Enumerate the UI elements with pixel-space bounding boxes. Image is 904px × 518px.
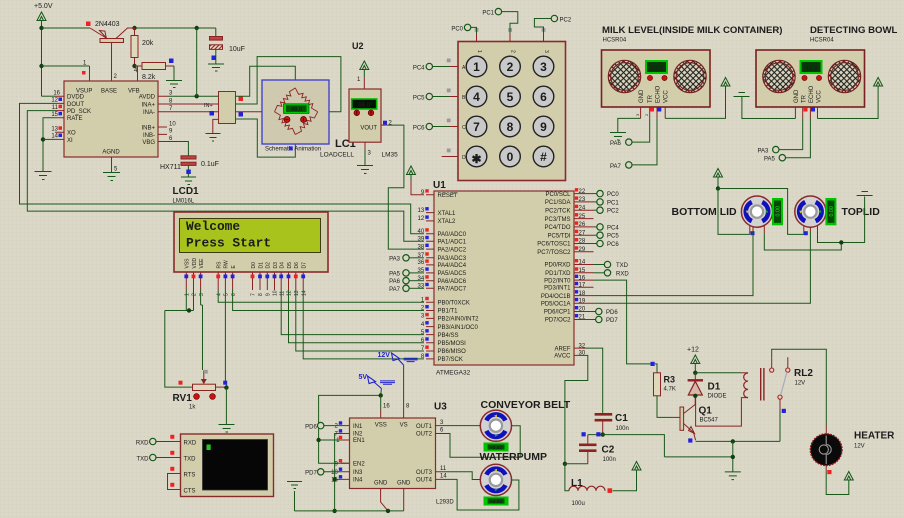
svg-text:16: 16 — [579, 275, 586, 281]
svg-text:PC1: PC1 — [607, 200, 619, 206]
svg-text:88.0: 88.0 — [358, 102, 371, 109]
U3 top pin stubs — [381, 409, 404, 418]
svg-text:5V: 5V — [359, 374, 368, 381]
svg-text:ECHO: ECHO — [656, 85, 662, 103]
svg-text:0.00: 0.00 — [776, 206, 782, 217]
svg-text:PA3/ADC3: PA3/ADC3 — [438, 256, 467, 262]
node C2 bottom — [563, 462, 567, 466]
blue squares lid pins — [751, 231, 808, 235]
LCD pin numbers — [185, 290, 308, 296]
wire bottomlid signal PD4 — [594, 232, 754, 296]
svg-text:9: 9 — [266, 293, 272, 296]
svg-text:0.00: 0.00 — [829, 206, 835, 217]
svg-text:0: 0 — [507, 150, 514, 164]
svg-text:CONVEYOR BELT: CONVEYOR BELT — [481, 399, 571, 411]
keypad button 1 — [466, 56, 487, 77]
power arrow +5V — [37, 12, 46, 28]
U3 top pin numbers — [383, 404, 410, 410]
svg-text:7: 7 — [251, 293, 257, 296]
keypad button 9 — [533, 116, 554, 137]
svg-text:PA7: PA7 — [389, 287, 401, 293]
U3 right pin stubs — [436, 426, 445, 480]
loadcell LC1 bridge — [262, 80, 329, 153]
wire VSS down — [380, 395, 382, 409]
svg-text:RW: RW — [224, 260, 230, 269]
wire sensor2 VCC to power — [818, 86, 879, 119]
wire RS to PB0 — [218, 290, 424, 302]
ground below 0.1uF — [181, 177, 196, 185]
terminal PC5 keypad — [413, 93, 450, 101]
svg-text:13: 13 — [51, 127, 58, 133]
terminal RXD — [594, 270, 630, 278]
svg-text:100n: 100n — [616, 426, 629, 432]
terminal PA5 U1 — [389, 270, 424, 278]
svg-text:PD1/TXD: PD1/TXD — [545, 271, 571, 277]
svg-text:2N4403: 2N4403 — [95, 21, 120, 28]
svg-text:IN2: IN2 — [353, 432, 363, 438]
svg-text:INA+: INA+ — [141, 102, 155, 108]
terminal PA7 U1 — [389, 285, 424, 293]
svg-text:PB7/SCK: PB7/SCK — [438, 357, 463, 363]
node VDD — [187, 308, 191, 312]
svg-text:D6: D6 — [294, 262, 300, 269]
svg-text:DOUT: DOUT — [67, 102, 84, 108]
keypad button 8 — [500, 116, 521, 137]
keypad button 3 — [533, 56, 554, 77]
svg-text:PA3: PA3 — [758, 149, 770, 155]
svg-text:PC2: PC2 — [560, 18, 572, 24]
node +5V top — [39, 26, 43, 30]
svg-text:PA5: PA5 — [764, 157, 776, 163]
svg-text:PA5: PA5 — [389, 271, 401, 277]
terminal PC0 — [451, 24, 476, 33]
svg-text:17: 17 — [579, 283, 586, 289]
ground below 8.2k — [166, 81, 182, 88]
motor M4 toplid — [795, 196, 826, 227]
terminal PC6 U1 — [594, 240, 620, 248]
motor M3 bottom lid — [741, 196, 772, 227]
svg-text:VS: VS — [400, 423, 408, 429]
wire IN2 IN4 to gnd rail — [335, 434, 341, 511]
svg-text:14: 14 — [440, 474, 447, 480]
svg-text:20: 20 — [579, 307, 586, 313]
wire relay NO to heater — [772, 349, 827, 426]
lamp HEATER — [810, 426, 842, 474]
node lid supply — [716, 186, 720, 190]
power arrow sensor1 — [721, 78, 730, 87]
svg-text:D1: D1 — [258, 262, 264, 269]
node gnd rail — [731, 455, 735, 459]
U1 left pin numbers — [418, 189, 429, 360]
svg-text:Schematic Animation: Schematic Animation — [265, 147, 321, 153]
svg-text:1: 1 — [476, 50, 482, 53]
U3 left pin numbers — [331, 421, 342, 483]
svg-text:IN1: IN1 — [353, 424, 363, 430]
terminal PA3 U1 — [389, 255, 424, 263]
svg-text:100u: 100u — [572, 501, 585, 507]
pin 3 LM35 stub — [365, 142, 372, 165]
svg-text:D4: D4 — [280, 262, 286, 269]
pin 5 AGND stub — [112, 157, 119, 173]
blue squares mid rail — [582, 432, 601, 436]
svg-text:DIODE: DIODE — [708, 394, 727, 400]
RTS CTS squares — [170, 467, 174, 487]
HX711 left pin stubs — [55, 96, 64, 139]
wire AREF to C1 — [586, 348, 603, 413]
transistor Q 2N4403 — [86, 21, 135, 81]
sensor HCSR04 detecting bowl body — [756, 50, 865, 107]
svg-text:22: 22 — [579, 189, 586, 195]
wire AVDD to bridge connector — [167, 95, 219, 97]
wire sensor1 TR to PA6 — [632, 118, 650, 142]
pin 1 VSUP stub — [82, 61, 90, 82]
node gnd rail left — [332, 509, 336, 513]
sensor U2 LM35 body — [349, 89, 381, 142]
display conveyor — [484, 443, 509, 452]
svg-text:INB+: INB+ — [141, 125, 155, 131]
wire sensor2 ECHO to PA5 — [786, 119, 811, 158]
svg-text:17.0: 17.0 — [651, 65, 664, 72]
LCD LM016L body — [174, 212, 328, 272]
svg-text:PC1/SDA: PC1/SDA — [545, 200, 571, 206]
wire bridge excite top — [236, 66, 296, 96]
wire OUT1 conveyor — [444, 425, 480, 427]
node lid return — [839, 240, 843, 244]
svg-text:PA6: PA6 — [389, 279, 401, 285]
HX711 right pin stubs — [158, 96, 167, 141]
ground sensor1 — [610, 133, 626, 141]
svg-text:PA6/ADC6: PA6/ADC6 — [438, 279, 467, 285]
svg-text:PB4/SS: PB4/SS — [438, 333, 459, 339]
keypad button 4 — [466, 86, 487, 107]
ground Q1 — [725, 472, 741, 480]
svg-text:IN3: IN3 — [353, 470, 363, 476]
svg-text:VSUP: VSUP — [76, 89, 92, 95]
svg-text:RXD: RXD — [136, 441, 149, 447]
ground below AGND — [103, 173, 120, 181]
svg-text:PD4/OC1B: PD4/OC1B — [541, 294, 571, 300]
node gnd rail right — [386, 509, 390, 513]
wire supply to toplid — [718, 189, 804, 235]
wire RATE to ground — [43, 118, 55, 171]
wire sensor2 TR to PA3 — [779, 119, 803, 150]
svg-text:15: 15 — [51, 112, 58, 118]
terminal PC4 keypad — [413, 63, 450, 71]
node EN1 — [316, 438, 320, 442]
keypad left pin stubs — [442, 59, 458, 157]
svg-text:PC4: PC4 — [413, 66, 425, 72]
wire sensor2 gnd — [742, 97, 796, 119]
terminal PD7 U1 — [594, 316, 619, 324]
terminal PA3 sensor — [758, 146, 780, 154]
power flag 12V — [378, 352, 418, 365]
svg-text:PC4/TDO: PC4/TDO — [544, 225, 570, 231]
wire bridge left red — [236, 111, 275, 113]
svg-text:PB6/MISO: PB6/MISO — [438, 349, 467, 355]
keypad top pin stubs — [475, 28, 546, 42]
svg-text:AGND: AGND — [102, 150, 120, 156]
svg-text:XTAL1: XTAL1 — [438, 211, 457, 217]
terminal PC6 keypad — [413, 123, 450, 131]
svg-text:16: 16 — [53, 91, 60, 97]
wire supply to bottomlid — [718, 189, 750, 235]
virtual terminal body — [181, 434, 274, 497]
svg-text:WATERPUMP: WATERPUMP — [480, 451, 547, 463]
svg-text:11: 11 — [440, 466, 447, 472]
svg-text:EN1: EN1 — [353, 438, 365, 444]
svg-text:PD7/OC2: PD7/OC2 — [545, 318, 571, 324]
svg-text:8: 8 — [507, 120, 514, 134]
svg-text:ATMEGA32: ATMEGA32 — [436, 370, 471, 377]
terminal PC4 U1 — [594, 224, 620, 232]
svg-text:PA0/ADC0: PA0/ADC0 — [438, 232, 467, 238]
svg-text:PC6/TOSC1: PC6/TOSC1 — [537, 242, 571, 248]
keypad button star — [466, 146, 487, 167]
svg-text:28: 28 — [579, 239, 586, 245]
power arrow RESET — [407, 166, 416, 180]
wire INA+ to connector — [167, 103, 219, 105]
svg-text:INA-: INA- — [143, 110, 155, 116]
svg-text:10: 10 — [273, 290, 279, 296]
svg-text:RXD: RXD — [184, 440, 197, 446]
HX711 left pin numbers — [51, 91, 62, 140]
svg-text:PC2/TCK: PC2/TCK — [545, 208, 570, 214]
wire OUT4 waterpump — [444, 479, 519, 510]
svg-text:9: 9 — [540, 120, 547, 134]
svg-text:PA6: PA6 — [610, 141, 622, 147]
node 20k bottom — [132, 64, 136, 68]
power arrow L1 — [632, 462, 641, 471]
wire toplid signal PD5 — [594, 232, 811, 303]
svg-text:PC6: PC6 — [413, 126, 425, 132]
svg-text:RS: RS — [217, 261, 223, 269]
wire sensor1 gnd — [618, 118, 641, 132]
node RATE XI — [41, 137, 45, 141]
svg-text:6: 6 — [540, 90, 547, 104]
svg-text:15: 15 — [579, 268, 586, 274]
svg-text:12V: 12V — [378, 352, 391, 359]
node IN4 — [332, 477, 336, 481]
svg-text:13: 13 — [418, 208, 425, 214]
svg-text:PD7: PD7 — [305, 471, 317, 477]
svg-text:LM35: LM35 — [382, 152, 399, 159]
svg-text:VFB: VFB — [128, 89, 140, 95]
svg-text:XI: XI — [67, 138, 73, 144]
wire mid rail — [588, 435, 665, 457]
svg-text:PA1/ADC1: PA1/ADC1 — [438, 240, 467, 246]
svg-text:12: 12 — [51, 98, 58, 104]
svg-text:AVCC: AVCC — [554, 354, 571, 360]
svg-text:PB5/MOSI: PB5/MOSI — [438, 341, 467, 347]
svg-text:5: 5 — [507, 90, 514, 104]
svg-text:RTS: RTS — [184, 472, 196, 478]
svg-text:7: 7 — [473, 120, 480, 134]
wire collector to cap rail — [135, 27, 216, 29]
svg-text:PD5/OC1A: PD5/OC1A — [541, 302, 571, 308]
svg-text:CTS: CTS — [184, 488, 196, 494]
terminal PC1 U1 — [594, 199, 620, 207]
svg-text:26: 26 — [579, 222, 586, 228]
svg-text:R3: R3 — [664, 375, 676, 385]
keypad body — [458, 42, 566, 181]
IC U1 ATMEGA32 body — [434, 191, 574, 365]
wire DVDD to +5V — [42, 95, 56, 97]
HX711 right pin numbers — [169, 91, 176, 142]
svg-text:27: 27 — [579, 230, 586, 236]
display toplid — [825, 198, 836, 225]
wire +5V top horizontal — [42, 27, 91, 29]
wire D6 to PB6 — [296, 290, 424, 351]
blue square relay common — [782, 409, 786, 413]
wire E to PB1 — [233, 290, 424, 311]
diode D1 — [688, 373, 703, 398]
svg-text:+0.02: +0.02 — [490, 499, 503, 505]
svg-text:19: 19 — [579, 299, 586, 305]
svg-text:2: 2 — [192, 293, 198, 296]
svg-text:OUT3: OUT3 — [416, 470, 433, 476]
svg-text:18: 18 — [579, 291, 586, 297]
svg-text:PD3/INT1: PD3/INT1 — [544, 286, 571, 292]
wire heater to power — [826, 472, 849, 495]
svg-text:Press Start: Press Start — [186, 235, 271, 250]
svg-text:PA3: PA3 — [389, 256, 401, 262]
svg-text:PC3/TMS: PC3/TMS — [544, 217, 570, 223]
svg-text:4: 4 — [216, 293, 222, 296]
svg-text:#: # — [540, 150, 547, 164]
svg-text:C1: C1 — [615, 413, 628, 424]
ground below LM35 — [357, 166, 373, 174]
svg-text:25: 25 — [579, 214, 586, 220]
svg-text:16: 16 — [383, 404, 390, 410]
node +5V vsup — [39, 64, 43, 68]
terminal TXD — [594, 261, 629, 269]
wire L1 to power — [613, 471, 637, 491]
svg-text:+12: +12 — [687, 347, 699, 354]
svg-text:PB2/AIN0/INT2: PB2/AIN0/INT2 — [438, 317, 480, 323]
svg-text:4: 4 — [473, 90, 480, 104]
svg-text:U1: U1 — [433, 180, 446, 191]
wire RV1 right to ground — [225, 388, 227, 424]
svg-text:GND: GND — [397, 481, 411, 487]
svg-text:1: 1 — [473, 60, 480, 74]
terminal PD6 U1 — [594, 308, 619, 316]
svg-text:Welcome: Welcome — [186, 219, 240, 234]
svg-text:HX711: HX711 — [160, 164, 181, 171]
wire XI link — [43, 138, 55, 140]
svg-text:D7: D7 — [302, 262, 308, 269]
svg-text:10uF: 10uF — [229, 46, 245, 53]
svg-text:38: 38 — [418, 244, 425, 250]
U3 right pin numbers — [440, 420, 447, 480]
svg-text:AREF: AREF — [554, 346, 570, 352]
svg-text:DETECTING BOWL: DETECTING BOWL — [810, 25, 898, 36]
wire VSS down — [185, 290, 187, 311]
wire toplid return — [818, 197, 865, 243]
wire D4 to PB4 — [281, 290, 424, 335]
ground below 10uF — [208, 64, 224, 71]
terminal PC2 — [534, 15, 571, 33]
ground RV1 — [219, 425, 235, 433]
svg-text:BOTTOM LID: BOTTOM LID — [672, 206, 738, 218]
svg-text:12V: 12V — [795, 381, 806, 387]
svg-text:39: 39 — [418, 237, 425, 243]
svg-text:VSS: VSS — [375, 423, 387, 429]
svg-text:PC5/TDI: PC5/TDI — [547, 233, 570, 239]
wire PD2 to R3 — [594, 280, 658, 373]
svg-text:GND: GND — [794, 89, 800, 103]
node AVDD — [195, 94, 199, 98]
wire RESET — [411, 180, 424, 195]
wire 12V to VS — [403, 365, 405, 409]
svg-text:PC1: PC1 — [482, 11, 494, 17]
svg-text:D5: D5 — [287, 262, 293, 269]
svg-text:48.0: 48.0 — [291, 107, 302, 113]
terminal PC0 U1 — [594, 190, 620, 198]
resistor 8.2k — [134, 59, 174, 82]
svg-text:24: 24 — [579, 205, 586, 211]
svg-text:EN2: EN2 — [353, 462, 365, 468]
svg-text:TXD: TXD — [137, 457, 150, 463]
wire C2 gnd link — [565, 464, 588, 491]
svg-text:PD2/INT0: PD2/INT0 — [544, 278, 571, 284]
inductor L1 — [569, 486, 605, 491]
terminal PA7 sensor — [610, 162, 632, 170]
power arrow sensor2 — [874, 78, 883, 87]
svg-text:U3: U3 — [434, 402, 447, 413]
svg-text:RXD: RXD — [616, 271, 629, 277]
power arrow heater — [844, 472, 853, 481]
svg-text:2: 2 — [510, 50, 516, 53]
potentiometer RV1 — [179, 370, 228, 400]
wire RW to RV1 right — [225, 290, 226, 388]
wire U3 ground rail — [295, 491, 404, 511]
wire VEE to RV1 wiper — [201, 290, 203, 370]
wire INA- to connector — [167, 111, 219, 113]
IC U3 L293D body — [350, 418, 436, 489]
transistor Q1 BC547 — [671, 398, 696, 440]
svg-text:LCD1: LCD1 — [173, 186, 200, 197]
svg-text:21: 21 — [579, 315, 586, 321]
wire relay common to emitter — [696, 410, 780, 441]
wire AVDD rail vertical — [196, 28, 198, 96]
keypad button 6 — [533, 86, 554, 107]
terminal PA6 sensor — [610, 139, 632, 147]
svg-text:PB1/T1: PB1/T1 — [438, 309, 459, 315]
terminal PA6 U1 — [389, 278, 424, 286]
svg-text:TR: TR — [648, 94, 654, 103]
svg-text:13.0: 13.0 — [805, 65, 818, 72]
svg-text:PD7: PD7 — [606, 318, 618, 324]
terminal RXD vt — [136, 435, 181, 447]
svg-text:PC5: PC5 — [413, 96, 425, 102]
svg-text:D2: D2 — [266, 262, 272, 269]
terminal PC2 U1 — [594, 207, 620, 215]
capacitor C 10uF — [210, 28, 245, 64]
keypad button 2 — [500, 56, 521, 77]
svg-text:100n: 100n — [603, 457, 616, 463]
ground lid top right — [857, 192, 873, 196]
svg-text:13: 13 — [294, 290, 300, 296]
wire R3 to Q1 base — [657, 396, 671, 418]
wire 8.2k to ground — [173, 66, 175, 80]
wire sensor1 VCC to power — [665, 86, 725, 118]
svg-text:INB-: INB- — [143, 133, 155, 139]
U3 left pin stubs — [341, 426, 350, 480]
svg-text:VCC: VCC — [664, 90, 670, 103]
U1 right pin stubs — [574, 194, 594, 356]
motor M2 waterpump — [480, 464, 511, 495]
ground below connector — [206, 134, 221, 142]
